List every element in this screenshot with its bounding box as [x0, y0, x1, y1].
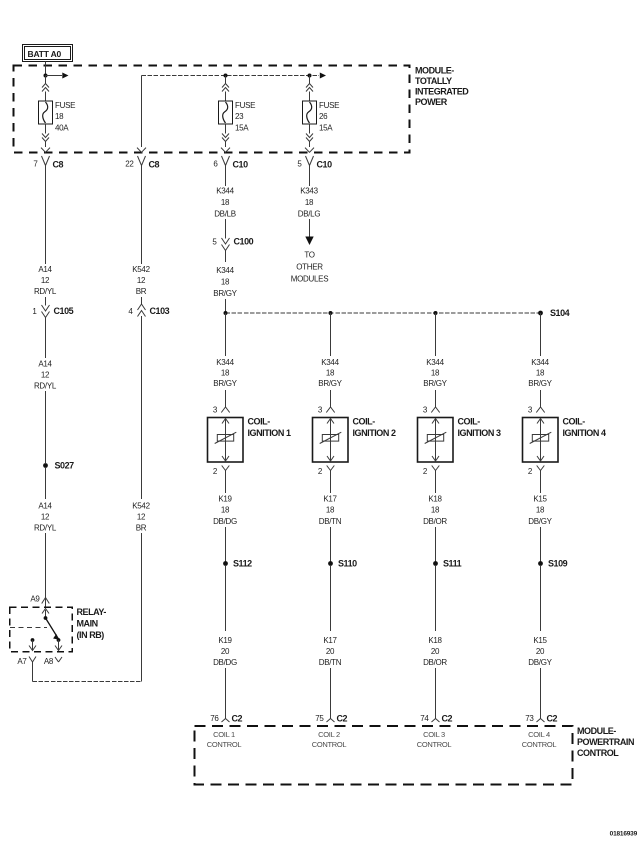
connector chevrons below fuse 18 40A [42, 134, 49, 142]
svg-text:C100: C100 [234, 237, 254, 247]
svg-text:20: 20 [431, 647, 440, 656]
wire [540, 527, 542, 562]
svg-text:S027: S027 [55, 461, 75, 471]
svg-text:C2: C2 [547, 714, 558, 724]
wire label K17 18 DB/TN [319, 495, 342, 526]
svg-text:A7: A7 [17, 657, 27, 666]
wire label K542 12 BR [132, 502, 150, 533]
relay pin A8 [44, 657, 62, 666]
svg-text:CONTROL: CONTROL [312, 740, 347, 749]
wire K344 to coil 3 [435, 313, 437, 356]
wire K344 from C10 [225, 171, 227, 186]
ignition coil U3 box [418, 418, 454, 463]
wire label K344 18 BR/GY [213, 266, 237, 298]
svg-text:18: 18 [221, 369, 230, 378]
coil 3 pin 2 [423, 466, 439, 477]
relay internal: coil actuation dashed line [10, 627, 47, 629]
node: battery feed junction [44, 74, 48, 78]
svg-text:MAIN: MAIN [77, 619, 98, 629]
connector chevrons below fuse 23 15A [222, 134, 229, 142]
svg-text:12: 12 [137, 276, 146, 285]
wire: A7 to K542 ground run [33, 681, 142, 683]
coil label COIL-IGNITION 1 [248, 417, 291, 439]
relay label RELAY-MAIN (IN RB) [77, 607, 107, 640]
wire from fuse 18 40A to module edge [45, 142, 47, 148]
wire [330, 476, 332, 494]
wire: bus down to fuse 18 40A [45, 76, 47, 85]
svg-text:20: 20 [221, 647, 230, 656]
svg-text:K344: K344 [531, 358, 549, 367]
wire label K343 18 DB/LG [298, 187, 321, 219]
PCM input label COIL 3 CONTROL [417, 730, 452, 749]
connector chevrons below fuse 26 15A [306, 134, 313, 142]
svg-text:DB/OR: DB/OR [423, 517, 447, 526]
svg-text:C103: C103 [150, 306, 170, 316]
connector chevrons above fuse 26 15A [306, 84, 313, 92]
wire [225, 527, 227, 562]
wire from fuse 26 15A to module edge [309, 142, 311, 148]
svg-text:IGNITION 1: IGNITION 1 [248, 428, 291, 438]
svg-text:73: 73 [525, 714, 534, 723]
svg-text:A14: A14 [38, 502, 52, 511]
wire K344 to coil 1 [225, 313, 227, 356]
svg-text:FUSE: FUSE [55, 101, 75, 110]
svg-text:OTHER: OTHER [296, 263, 323, 272]
relay pin A9 [30, 595, 49, 608]
label TO OTHER MODULES [291, 251, 328, 284]
wire [435, 527, 437, 562]
wire to PCM [225, 668, 227, 715]
svg-text:COIL 2: COIL 2 [318, 730, 340, 739]
wire label K344 18 DB/LB [214, 187, 236, 219]
connector chevrons above fuse 23 15A [222, 84, 229, 92]
coil label COIL-IGNITION 3 [458, 417, 501, 439]
wire [225, 566, 227, 631]
wire K542 below C103 [141, 319, 143, 499]
svg-text:IGNITION 3: IGNITION 3 [458, 428, 501, 438]
svg-text:K344: K344 [216, 358, 234, 367]
wire [45, 297, 47, 304]
node: fuse 26 feed junction [308, 74, 312, 78]
svg-text:K344: K344 [216, 266, 234, 275]
svg-text:DB/GY: DB/GY [528, 658, 552, 667]
wire label K19 20 DB/DG [213, 636, 237, 667]
splice S110 [328, 559, 357, 569]
svg-text:BR/GY: BR/GY [318, 379, 342, 388]
svg-text:C10: C10 [317, 160, 333, 170]
svg-text:S104: S104 [550, 308, 570, 318]
splice S111 [433, 559, 462, 569]
wire: splice bus S104 [226, 312, 541, 314]
wire into fuse 18 40A [45, 92, 47, 102]
battery feed box BATT A0 [23, 45, 73, 62]
wire: C8 pin 22 column inside module [141, 76, 143, 148]
fuse 23 15A [219, 101, 256, 133]
svg-text:12: 12 [41, 513, 50, 522]
svg-text:DB/DG: DB/DG [213, 517, 237, 526]
svg-text:CONTROL: CONTROL [522, 740, 557, 749]
wire [540, 390, 542, 407]
connector C10 pin 5 [297, 148, 332, 171]
svg-text:C2: C2 [442, 714, 453, 724]
svg-text:18: 18 [536, 506, 545, 515]
svg-text:A14: A14 [38, 360, 52, 369]
svg-text:BR: BR [136, 287, 147, 296]
svg-text:TO: TO [304, 251, 314, 260]
connector C8 pin 22 [125, 148, 159, 171]
svg-text:18: 18 [305, 198, 314, 207]
PCM input label COIL 2 CONTROL [312, 730, 347, 749]
svg-text:IGNITION 4: IGNITION 4 [563, 428, 606, 438]
wire K344 to coil 2 [330, 313, 332, 356]
wire below fuse 18 40A [45, 124, 47, 134]
ignition coil U1 box [208, 418, 244, 463]
svg-text:RELAY-: RELAY- [77, 607, 107, 617]
coil label COIL-IGNITION 4 [563, 417, 606, 439]
wire A14 from C8 to C105 [45, 171, 47, 264]
svg-text:COIL-: COIL- [458, 417, 481, 427]
wire [330, 527, 332, 562]
coil label COIL-IGNITION 2 [353, 417, 396, 439]
PCM input label COIL 1 CONTROL [207, 730, 242, 749]
connector C2 pin 73 [525, 714, 557, 724]
wire label A14 12 RD/YL [34, 265, 57, 296]
wire [435, 390, 437, 407]
svg-text:FUSE: FUSE [319, 101, 339, 110]
svg-text:K15: K15 [533, 636, 547, 645]
wire [330, 390, 332, 407]
coil 4 pin 2 [528, 466, 544, 477]
svg-text:DB/TN: DB/TN [319, 658, 342, 667]
connector chevrons above fuse 18 40A [42, 84, 49, 92]
wire label K18 20 DB/OR [423, 636, 447, 667]
relay internal: A8 contact arrow down [55, 640, 62, 651]
wire label K344 18 BR/GY (coil 4) [528, 358, 552, 388]
connector C100 pin 5 [212, 236, 253, 253]
wire [225, 476, 227, 494]
svg-text:INTEGRATED: INTEGRATED [415, 87, 469, 97]
wire K343 from C10 [309, 171, 311, 186]
svg-text:BR/GY: BR/GY [213, 289, 237, 298]
svg-text:K344: K344 [216, 187, 234, 196]
svg-text:C105: C105 [54, 306, 74, 316]
connector C2 pin 74 [420, 714, 452, 724]
node: splice bus junction 1 [224, 311, 228, 315]
module label MODULE-POWERTRAIN CONTROL [577, 726, 634, 758]
fuse 18 40A [39, 101, 76, 133]
svg-text:(IN RB): (IN RB) [77, 630, 105, 640]
svg-text:20: 20 [326, 647, 335, 656]
svg-text:TOTALLY: TOTALLY [415, 76, 452, 86]
svg-text:18: 18 [326, 369, 335, 378]
svg-text:COIL 4: COIL 4 [528, 730, 550, 739]
svg-text:MODULE-: MODULE- [415, 66, 454, 76]
svg-text:75: 75 [315, 714, 324, 723]
module box: Totally Integrated Power (dashed) [14, 66, 410, 153]
svg-text:DB/GY: DB/GY [528, 517, 552, 526]
svg-text:C10: C10 [233, 160, 249, 170]
svg-text:DB/OR: DB/OR [423, 658, 447, 667]
node: splice bus junction 2 [329, 311, 333, 315]
svg-text:DB/LB: DB/LB [214, 209, 236, 218]
connector C103 pin 4 [128, 303, 169, 320]
relay box RELAY-MAIN (IN RB), dashed [10, 607, 73, 652]
wire: relay A7 down [32, 666, 34, 682]
svg-text:C8: C8 [53, 160, 64, 170]
splice S027 [43, 461, 74, 471]
wire label K542 12 BR [132, 265, 150, 296]
wire [225, 390, 227, 407]
wire label K15 20 DB/GY [528, 636, 552, 667]
node: fuse 23 feed junction [224, 74, 228, 78]
svg-text:18: 18 [221, 506, 230, 515]
svg-text:K15: K15 [533, 495, 547, 504]
wire label K344 18 BR/GY (coil 1) [213, 358, 237, 388]
wire K344 to coil 4 [540, 313, 542, 356]
coil 1 pin 3 [213, 406, 230, 415]
svg-text:K19: K19 [218, 636, 232, 645]
svg-text:18: 18 [55, 112, 64, 121]
wire label K17 20 DB/TN [319, 636, 342, 667]
module label MODULE-TOTALLY INTEGRATED POWER [415, 66, 469, 108]
wire [225, 252, 227, 262]
coil 2 pin 2 [318, 466, 334, 477]
svg-text:COIL-: COIL- [563, 417, 586, 427]
wire: bus down to fuse 26 15A [309, 76, 311, 85]
svg-text:C2: C2 [232, 714, 243, 724]
wire [435, 476, 437, 494]
ignition coil U4 box [523, 418, 559, 463]
svg-text:DB/TN: DB/TN [319, 517, 342, 526]
svg-text:C2: C2 [337, 714, 348, 724]
svg-text:18: 18 [431, 369, 440, 378]
svg-text:POWER: POWER [415, 97, 448, 107]
svg-text:COIL-: COIL- [248, 417, 271, 427]
svg-text:20: 20 [536, 647, 545, 656]
fuse 26 15A [303, 101, 340, 133]
svg-text:MODULE-: MODULE- [577, 726, 616, 736]
connector C10 pin 6 [213, 148, 248, 171]
wire [540, 566, 542, 631]
wire [540, 476, 542, 494]
svg-text:K17: K17 [323, 495, 337, 504]
svg-text:BR/GY: BR/GY [213, 379, 237, 388]
splice S109 [538, 559, 568, 569]
wire: short feed arrow right of junction [46, 73, 69, 79]
svg-text:S112: S112 [233, 559, 252, 569]
svg-text:15A: 15A [235, 124, 249, 133]
svg-text:26: 26 [319, 112, 328, 121]
svg-text:COIL 1: COIL 1 [213, 730, 235, 739]
svg-text:FUSE: FUSE [235, 101, 255, 110]
wire [225, 219, 227, 237]
svg-text:12: 12 [137, 513, 146, 522]
connector C2 pin 75 [315, 714, 347, 724]
relay internal: common contact node [44, 616, 48, 620]
svg-text:IGNITION 2: IGNITION 2 [353, 428, 396, 438]
wire to PCM [540, 668, 542, 715]
PCM input label COIL 4 CONTROL [522, 730, 557, 749]
wire [435, 566, 437, 631]
svg-text:CONTROL: CONTROL [417, 740, 452, 749]
wire label K344 18 BR/GY (coil 3) [423, 358, 447, 388]
svg-text:K19: K19 [218, 495, 232, 504]
svg-text:22: 22 [125, 160, 134, 169]
splice S104 [538, 308, 570, 318]
wire K542 down to relay return [141, 533, 143, 682]
wire label K19 18 DB/DG [213, 495, 237, 526]
wire A14 to relay pin A9 [45, 533, 47, 598]
svg-text:A9: A9 [30, 595, 40, 604]
svg-text:12: 12 [41, 371, 50, 380]
svg-text:BATT A0: BATT A0 [28, 49, 62, 59]
wire from fuse 23 15A to module edge [225, 142, 227, 148]
svg-text:18: 18 [221, 198, 230, 207]
wire label A14 12 RD/YL [34, 502, 57, 533]
wire: BATT A0 down to junction [45, 62, 47, 76]
wire [330, 566, 332, 631]
wire into fuse 26 15A [309, 92, 311, 102]
svg-text:K344: K344 [321, 358, 339, 367]
svg-text:01816939: 01816939 [610, 831, 638, 838]
svg-text:K18: K18 [428, 495, 442, 504]
svg-text:S110: S110 [338, 559, 357, 569]
svg-text:K343: K343 [300, 187, 318, 196]
wire [45, 391, 47, 463]
coil 3 pin 3 [423, 406, 440, 415]
svg-text:DB/DG: DB/DG [213, 658, 237, 667]
svg-text:S109: S109 [548, 559, 568, 569]
svg-text:A8: A8 [44, 657, 54, 666]
svg-text:S111: S111 [443, 559, 462, 569]
svg-text:RD/YL: RD/YL [34, 287, 57, 296]
svg-text:15A: 15A [319, 124, 333, 133]
svg-text:BR: BR [136, 524, 147, 533]
svg-text:C8: C8 [149, 160, 160, 170]
svg-text:BR/GY: BR/GY [423, 379, 447, 388]
wire K542 from C8 to C103 [141, 171, 143, 264]
svg-text:23: 23 [235, 112, 244, 121]
wire into fuse 23 15A [225, 92, 227, 102]
connector C2 pin 76 [210, 714, 242, 724]
wire to PCM [435, 668, 437, 715]
relay pin A7 [17, 657, 36, 667]
wire below fuse 23 15A [225, 124, 227, 134]
wire A14 below C105 [45, 319, 47, 358]
svg-text:K18: K18 [428, 636, 442, 645]
wire [141, 297, 143, 304]
svg-text:DB/LG: DB/LG [298, 209, 321, 218]
relay internal: feed arrow up [42, 609, 49, 619]
wire: arrow to other modules [305, 219, 313, 245]
svg-text:74: 74 [420, 714, 429, 723]
coil 4 pin 3 [528, 406, 545, 415]
wire below fuse 26 15A [309, 124, 311, 134]
wire to PCM [330, 668, 332, 715]
svg-text:18: 18 [326, 506, 335, 515]
wire [45, 468, 47, 499]
svg-text:RD/YL: RD/YL [34, 524, 57, 533]
connector C105 pin 1 [32, 303, 73, 320]
module box: Powertrain Control (dashed) [195, 726, 573, 785]
wire label K344 18 BR/GY (coil 2) [318, 358, 342, 388]
splice S112 [223, 559, 252, 569]
wire label K18 18 DB/OR [423, 495, 447, 526]
node: splice bus junction 3 [434, 311, 438, 315]
wire label A14 12 RD/YL [34, 360, 57, 391]
connector C8 pin 7 [33, 148, 63, 171]
ignition coil U2 box [313, 418, 349, 463]
svg-text:RD/YL: RD/YL [34, 382, 57, 391]
svg-text:18: 18 [431, 506, 440, 515]
svg-text:COIL 3: COIL 3 [423, 730, 445, 739]
svg-text:K542: K542 [132, 502, 150, 511]
svg-text:K17: K17 [323, 636, 337, 645]
coil 1 pin 2 [213, 466, 229, 477]
svg-text:76: 76 [210, 714, 219, 723]
wire: fuse feed bus from C8 pin 22 column to arrow [142, 73, 327, 79]
relay internal: switch blade to A8 contact [46, 618, 59, 639]
svg-text:COIL-: COIL- [353, 417, 376, 427]
relay internal: A7 contact node and arrow down [29, 638, 36, 650]
svg-text:12: 12 [41, 276, 50, 285]
wire to splice bus [225, 299, 227, 313]
svg-text:BR/GY: BR/GY [528, 379, 552, 388]
svg-text:18: 18 [221, 278, 230, 287]
wire label K15 18 DB/GY [528, 495, 552, 526]
svg-text:K344: K344 [426, 358, 444, 367]
coil 2 pin 3 [318, 406, 335, 415]
svg-text:40A: 40A [55, 124, 69, 133]
svg-text:MODULES: MODULES [291, 275, 328, 284]
wire: bus down to fuse 23 15A [225, 76, 227, 85]
svg-text:18: 18 [536, 369, 545, 378]
svg-text:CONTROL: CONTROL [577, 748, 619, 758]
svg-text:CONTROL: CONTROL [207, 740, 242, 749]
svg-text:K542: K542 [132, 265, 150, 274]
svg-text:POWERTRAIN: POWERTRAIN [577, 737, 634, 747]
svg-text:A14: A14 [38, 265, 52, 274]
